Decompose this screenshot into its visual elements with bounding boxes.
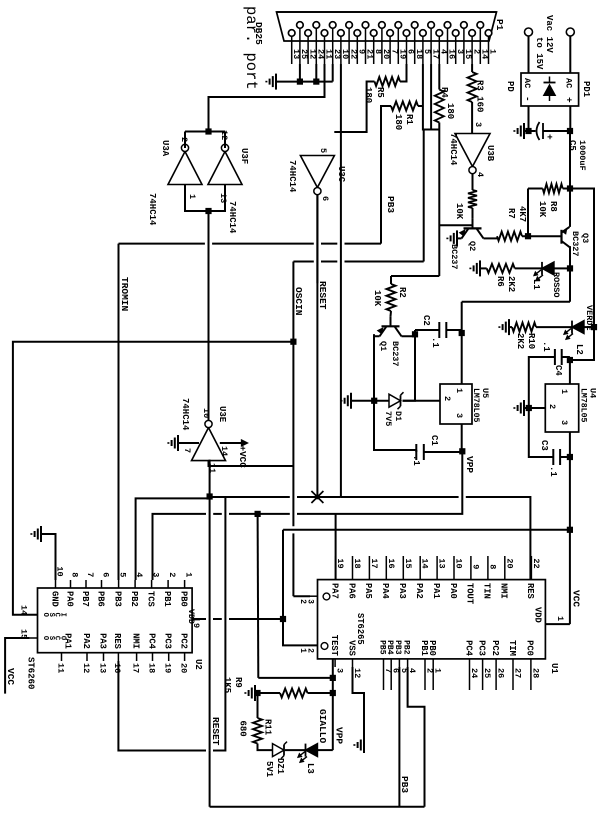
resistor R5 [375,77,401,86]
wire pin11 to inverter outputs U3A U3F [209,64,325,132]
svg-text:PB1: PB1 [419,640,429,656]
capacitor C2 [446,329,461,331]
U2 pin10 ground wire [41,534,56,580]
wire DZ1 to R11 [258,744,273,751]
connector P1 pin 24 [313,22,320,29]
svg-text:C1: C1 [429,435,439,446]
connector P1 pin 9 [354,30,361,37]
svg-text:R5: R5 [375,87,385,98]
wire R8 to rail [563,188,570,190]
connector P1 pin 1 [485,30,492,37]
svg-text:17: 17 [130,663,140,673]
junction star RESET h1 [311,491,323,503]
U1 PB2 wire [408,667,425,807]
junction pin24 bus [313,79,319,85]
svg-text:1: 1 [559,389,569,394]
inverter U3E 74HC14 [192,428,226,461]
connector P1 pin 14 [477,22,484,29]
svg-text:22: 22 [531,558,541,568]
svg-text:ST6260: ST6260 [26,657,36,689]
svg-text:5V1: 5V1 [264,761,274,778]
svg-text:7: 7 [182,448,192,453]
svg-text:11: 11 [55,663,65,673]
connector P1 pin 21 [362,22,369,29]
ground symbol C5 [524,130,529,132]
IC U1 ST6265 box [318,580,546,659]
connector P1 pin 11 [321,30,328,37]
svg-text:R6: R6 [495,276,505,287]
U2 pin 14 OSCI [30,614,38,616]
wire collector node to D1 node [403,330,416,401]
U1 PB3 wire [398,667,400,807]
svg-text:+: + [564,97,575,103]
+5 branch hop [282,529,285,531]
svg-text:PA3: PA3 [397,583,407,599]
svg-text:Q3: Q3 [580,233,590,243]
U1 pin 23 OSCin [310,595,318,597]
ground bus wire [276,81,333,83]
svg-text:RESET: RESET [317,281,328,310]
svg-text:PD: PD [505,81,515,92]
Q2 collector to R7 [484,237,498,239]
svg-text:12: 12 [81,663,91,673]
svg-text:PC3: PC3 [476,640,486,656]
ground line wire [373,334,375,400]
svg-text:PA5: PA5 [363,583,373,599]
wire R10 to ground [509,326,512,328]
wire C4 top [562,356,570,358]
svg-text:14: 14 [19,605,29,615]
svg-text:1: 1 [555,616,565,621]
junction pin25 bus [297,79,303,85]
VPP rise to TEST line [258,677,333,679]
svg-text:7V5: 7V5 [383,411,393,426]
wire PB2 U2 arm [209,497,211,499]
svg-text:10K: 10K [454,203,464,220]
OSCIN junction to U2 branch [290,339,296,345]
svg-text:R4: R4 [439,87,449,98]
U4 ground symbol [524,407,529,409]
resistor R7 [497,232,522,241]
svg-text:VCC: VCC [571,590,582,607]
U1 pin 3 TEST [334,659,336,667]
U1 PA7 open drain circle [323,593,330,600]
svg-text:R3 160: R3 160 [475,80,485,112]
svg-text:10K: 10K [372,290,382,307]
connector P1 pin 18 [411,22,418,29]
LED L1 ROSSO [542,262,554,275]
svg-text:L1: L1 [531,279,541,290]
capacitor C3 [559,449,561,465]
svg-text:PC0: PC0 [525,640,535,656]
junction U1 osc pin [280,616,286,622]
svg-text:VPP: VPP [464,456,475,473]
svg-text:8: 8 [487,564,497,569]
junction VPP TCS [255,511,261,517]
VPP wire to corner [297,451,462,514]
svg-text:LM78L05: LM78L05 [579,388,588,422]
U2 pin 4 PB2 [134,580,136,588]
U2 pin 2 PB1 [167,580,169,588]
junction Q3 base node [525,233,531,239]
U1 VSS ground [353,667,365,738]
LED L2 VERDE [572,321,584,334]
junction +5 branch [567,527,573,533]
wire pin23 to ground bus [332,64,334,82]
wire R4 to clock node [438,123,440,130]
junction U4 gnd node [526,405,532,411]
svg-text:BC237: BC237 [390,341,400,367]
svg-text:PC2: PC2 [178,633,188,649]
U2 pin 18 PC4 [152,653,154,661]
svg-text:PB5: PB5 [377,640,386,655]
U1 pin 22 RES [530,556,532,580]
svg-text:R1: R1 [404,114,414,125]
svg-text:PD1: PD1 [581,81,591,98]
connector P1 pin 12 [305,30,312,37]
svg-text:27: 27 [513,668,523,678]
junction L1 rail [567,265,573,271]
svg-text:PB3: PB3 [385,196,396,213]
svg-text:14: 14 [219,446,229,456]
svg-text:TROMIN: TROMIN [119,277,130,312]
svg-text:O: O [58,636,66,640]
junction ground node [371,398,377,404]
wire pin6 to R5 [400,64,407,82]
OSCIN link from clock node [423,130,425,262]
+12 rail wire [569,131,571,227]
wire U3A U3F inputs join [185,185,225,212]
wire Q2 base to clock line [439,224,472,226]
svg-text:6: 6 [320,196,330,201]
svg-text:-: - [522,96,533,102]
svg-text:TIM: TIM [507,640,517,656]
wire RESET to h1 [316,208,319,210]
svg-text:PA0: PA0 [64,591,74,607]
bottom loop wire [210,806,425,808]
resistor R9 [258,692,281,694]
svg-text:2: 2 [425,668,435,673]
U1 pin 13 PA1 [436,556,438,580]
wire pin17 joins clock node [430,64,432,130]
wire base node to R8 [527,189,529,237]
svg-text:C5: C5 [567,140,577,151]
svg-text:VDD: VDD [186,609,195,624]
resistor R8 [543,184,563,193]
svg-text:3: 3 [473,122,483,127]
bridge PD1 box [521,73,579,106]
junction R8 rail [567,185,573,191]
wire +5 down to U1 VDD [545,623,570,625]
top line wire to U4 input [570,327,594,360]
U1 pin 18 PA6 [352,556,354,580]
svg-text:LM78L05: LM78L05 [471,388,480,422]
junction busy node [205,128,211,134]
TEST line wire [332,659,334,750]
connector P1 DB25 body [277,12,497,41]
inverter U3B 74HC14 [455,134,490,167]
svg-text:TCS: TCS [145,591,155,607]
U1 pin 4 PB2 [407,659,409,667]
svg-text:L2: L2 [574,344,584,355]
U1 pin 17 PA5 [368,556,370,580]
svg-text:U1: U1 [549,663,559,674]
wire inverter inputs to U3E output [208,211,210,420]
svg-text:par. port: par. port [242,6,260,90]
svg-text:R11: R11 [263,719,273,736]
svg-text:P1: P1 [494,19,505,31]
connector P1 pin 10 [338,30,345,37]
svg-text:PA7: PA7 [329,583,339,599]
wire C4 bottom to gnd node [529,357,555,408]
junction C2 input line [459,330,465,336]
wire rail to L1 [554,267,570,269]
svg-text:9: 9 [470,564,480,569]
svg-text:.1: .1 [541,341,551,352]
U1 pin 15 PA3 [402,556,404,580]
TROMIN vertical [345,243,382,245]
svg-text:13: 13 [218,193,228,203]
wire U3F output [224,132,226,149]
ground symbol giallo [254,685,256,701]
wire R7 to Q3 base node [522,235,545,237]
ground symbol at connector [275,74,277,90]
inverter U3A 74HC14 [168,152,202,185]
wire U3C output RESET [316,195,318,209]
U2 pin 17 NMI [136,653,138,661]
svg-text:PA2: PA2 [414,583,424,599]
svg-text:17: 17 [369,558,379,568]
svg-text:.1: .1 [430,337,440,348]
terminal Vac 1 [525,28,533,36]
U2 pin 12 PA2 [86,653,88,661]
svg-text:AC: AC [564,78,574,88]
junction VPP C1 [459,448,465,454]
junction L2 top line [591,324,597,330]
svg-text:1000uF: 1000uF [577,140,587,171]
svg-text:180: 180 [363,87,373,103]
wire 10K to Q2 base [472,208,474,218]
LED L3 GIALLO [306,744,318,757]
U2 pin 20 PC2 [184,653,186,661]
U1 pin 14 PA2 [419,556,421,580]
wire C3 top to +5 rail [560,456,570,458]
svg-text:PC3: PC3 [163,633,173,649]
connector P1 pin 2 [469,30,476,37]
U2 pin 16 RES [117,653,119,661]
svg-text:R7: R7 [506,208,516,219]
svg-text:6: 6 [101,572,111,577]
svg-text:1: 1 [187,194,197,199]
svg-text:GND: GND [49,591,59,607]
wire R8 bottom [528,188,543,190]
wire U3A output [184,132,186,149]
svg-text:RESET: RESET [210,717,221,746]
svg-text:I: I [58,613,66,617]
svg-text:L3: L3 [305,763,315,774]
wire pin5 net [422,64,424,106]
VPP wire hop continue [258,513,290,515]
svg-text:U4: U4 [588,388,598,398]
+5 branch down to U2 VDD [284,529,570,531]
svg-text:VCC: VCC [5,668,16,685]
wire R3 to U3B input [471,102,473,134]
U1 TEST open drain circle [321,643,328,650]
connector P1 pin 17 [428,22,435,29]
wire down to R2 [391,275,439,277]
svg-text:74HC14: 74HC14 [147,193,157,226]
U2 pin 3 TCS [151,580,153,588]
svg-text:PC2: PC2 [490,640,500,656]
wire pin2 to R3 [471,64,473,72]
connector P1 pin 3 [452,30,459,37]
wire R6 to ground [480,267,487,269]
wire U3E input line [209,461,210,497]
U5 input wire from switched 12V [461,302,463,384]
svg-text:+VCC: +VCC [237,446,248,469]
svg-text:VPP: VPP [334,727,345,744]
RESET continues right [209,497,211,751]
resistor R6 [487,264,515,273]
svg-text:16: 16 [386,558,396,568]
wire pin25 to ground bus [299,64,301,82]
wire top line to L2 [584,326,594,328]
U2 pin 13 PA3 [103,653,105,661]
svg-text:2: 2 [306,648,315,653]
wire PD1 minus to gnd node [528,106,530,131]
U1 pin 8 TIN [487,556,489,580]
svg-text:PA6: PA6 [346,583,356,599]
svg-text:19: 19 [163,663,173,673]
junction U3E input node [207,493,213,499]
junction TEST R9 [330,690,336,696]
U2 pin 9 VDD [192,619,200,621]
U1 pin 12 VSS [352,659,354,667]
svg-text:R9: R9 [233,677,243,688]
svg-text:U2: U2 [193,659,203,670]
svg-text:3: 3 [559,420,569,425]
wire L1 to R6 [515,267,542,269]
connector P1 pin 23 [329,22,336,29]
svg-text:Vac 12V: Vac 12V [544,15,554,53]
h1 wire RES to U1 RES pin [317,496,341,498]
svg-text:BC327: BC327 [570,231,580,257]
junction ground R9 R11 [254,690,260,696]
resistor R2 [390,276,392,284]
inverter U3C 74HC14 [300,156,334,188]
capacitor C1 [423,444,425,460]
svg-text:4K7: 4K7 [517,206,527,222]
svg-text:D1: D1 [393,411,403,421]
junction TEST VPP [330,675,336,681]
svg-text:7: 7 [85,572,95,577]
U2 pin 5 PB3 [118,580,120,588]
capacitor C4 [561,349,563,365]
svg-text:TIN: TIN [482,583,492,599]
svg-text:28: 28 [530,668,540,678]
U3E vcc pin 14 [220,442,242,444]
svg-text:R8: R8 [548,201,558,212]
U1 pin 27 TIM [512,659,514,690]
wire R11 to ground node [257,693,259,718]
junction U4 input node [567,357,573,363]
U1 pin 6 PB4 [390,659,392,690]
wire L3 to DZ1 [285,749,306,751]
U4 ground pin wire [529,407,546,409]
svg-text:10: 10 [454,558,464,568]
VPP wire right to TEST column [257,514,260,678]
svg-text:2: 2 [547,404,557,409]
svg-text:1: 1 [454,388,464,393]
resistor 10K base Q2 [468,190,477,208]
svg-text:25: 25 [482,668,492,678]
svg-text:PA2: PA2 [81,633,91,649]
svg-text:TEST: TEST [329,635,339,657]
svg-text:74HC14: 74HC14 [287,160,297,193]
svg-text:3: 3 [454,413,464,418]
U1 pin 24 PC4 [469,659,471,690]
U2 pin 15 OSCO [30,637,38,639]
U2 pin 1 PB0 [184,580,186,588]
U1 pin 26 PC2 [495,659,497,690]
+5 rail wire [569,432,571,624]
wire U1 PA7 to VPP line [335,514,337,580]
svg-text:2K2: 2K2 [515,333,525,349]
svg-text:NMI: NMI [130,633,140,649]
wire TEST down to L3 [318,749,333,751]
svg-text:13: 13 [97,663,107,673]
svg-text:.1: .1 [411,455,421,466]
wire pin24 to ground bus [315,64,317,82]
svg-text:5: 5 [318,148,328,153]
svg-text:U3E: U3E [217,406,227,423]
svg-text:PB2: PB2 [129,591,139,607]
connector P1 pin 25 [297,22,304,29]
U2 pin 11 PA1 [61,653,63,661]
svg-text:1: 1 [184,572,194,577]
connector P1 pin 4 [436,30,443,37]
clock line horizontal [438,130,440,277]
svg-text:3: 3 [335,668,345,673]
svg-text:180: 180 [393,114,403,130]
svg-text:PA3: PA3 [97,633,107,649]
wire U3E input [209,461,294,466]
svg-text:C2: C2 [421,315,431,326]
wire terminals to PD1 [528,36,530,73]
zener DZ1 5V1 [273,744,285,757]
wire PD1 plus to rail [569,106,571,131]
connector P1 pin 5 [420,30,427,37]
svg-text:.1: .1 [548,466,558,477]
svg-text:18: 18 [146,663,156,673]
U5 output wire VPP [461,424,463,451]
svg-text:3: 3 [306,599,315,604]
svg-text:4: 4 [134,572,144,577]
svg-text:74HC14: 74HC14 [448,133,458,166]
wire pin10 to h1 [340,64,342,497]
terminal Vac 2 [566,28,574,36]
svg-text:ROSSO: ROSSO [551,272,561,298]
wire R1 to TROMIN [381,106,391,244]
U1 pin 20 NMI [504,556,506,580]
wire L2 to R10 [536,326,572,328]
ground line to C1 [374,401,416,450]
U3E ground pin 7 [178,442,199,444]
svg-text:7: 7 [383,668,393,673]
svg-text:PB6: PB6 [95,591,105,607]
svg-text:74HC14: 74HC14 [180,398,190,431]
U1 pin 1 PB0 [432,659,434,690]
